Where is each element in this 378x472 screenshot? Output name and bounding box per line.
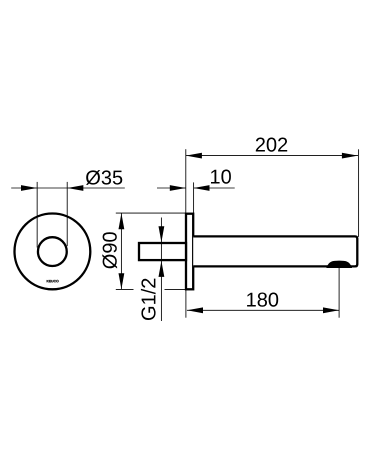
dim G1/2 arrow top [159,226,165,242]
dim 10 dimension line right tail [194,187,235,189]
spout outer circle (front view) [38,237,67,266]
dim Ø90 extension line bottom left segment [116,288,134,290]
dim Ø90 dimension line [120,213,122,289]
dim 202 dimension line [186,155,358,157]
dim 202 extension line left [185,149,187,212]
dim 10 label [211,170,231,184]
dim 180 extension line right [338,266,340,318]
dim 180 label [247,293,278,307]
dim Ø90 label (rotated) [102,232,117,268]
dim 180 arrow right [323,307,339,313]
dim Ø35 dimension line [11,187,125,189]
wall flange (side view) [186,214,193,290]
dim 10 extension line right [193,182,195,213]
dim Ø35 label [86,170,122,185]
aerator outlet dome [327,261,351,267]
dim Ø90 arrow bottom [119,273,125,289]
dim Ø35 extension line right [66,182,68,246]
dim 202 extension line right [358,149,360,237]
escutcheon outer circle (front view) [15,214,91,290]
dim G1/2 label (rotated) [141,279,156,320]
dim Ø90 extension line bottom right segment [165,288,187,290]
dim 10 arrow right [194,185,210,191]
dim Ø90 extension line top [116,212,186,214]
dim G1/2 arrow bottom [159,261,165,277]
dim 202 arrow left [186,153,202,159]
dim 202 label [256,138,287,152]
G1/2 threaded nipple (side view) [139,243,186,260]
dim 180 arrow left [187,307,203,313]
spout tube (side view) [193,236,357,266]
dim Ø35 arrow right [67,185,83,191]
dim 180 extension line left [185,290,187,318]
dim G1/2 dimension line [160,218,162,322]
dim Ø35 extension line left [36,182,38,248]
dim Ø35 arrow left [21,185,37,191]
KEUCO logo text [47,280,59,282]
dim 10 dimension line left tail [157,187,186,189]
dim 180 dimension line [187,309,339,311]
dim 10 arrow left [170,185,186,191]
dim Ø90 arrow top [119,213,125,229]
dim 202 arrow right [342,153,358,159]
